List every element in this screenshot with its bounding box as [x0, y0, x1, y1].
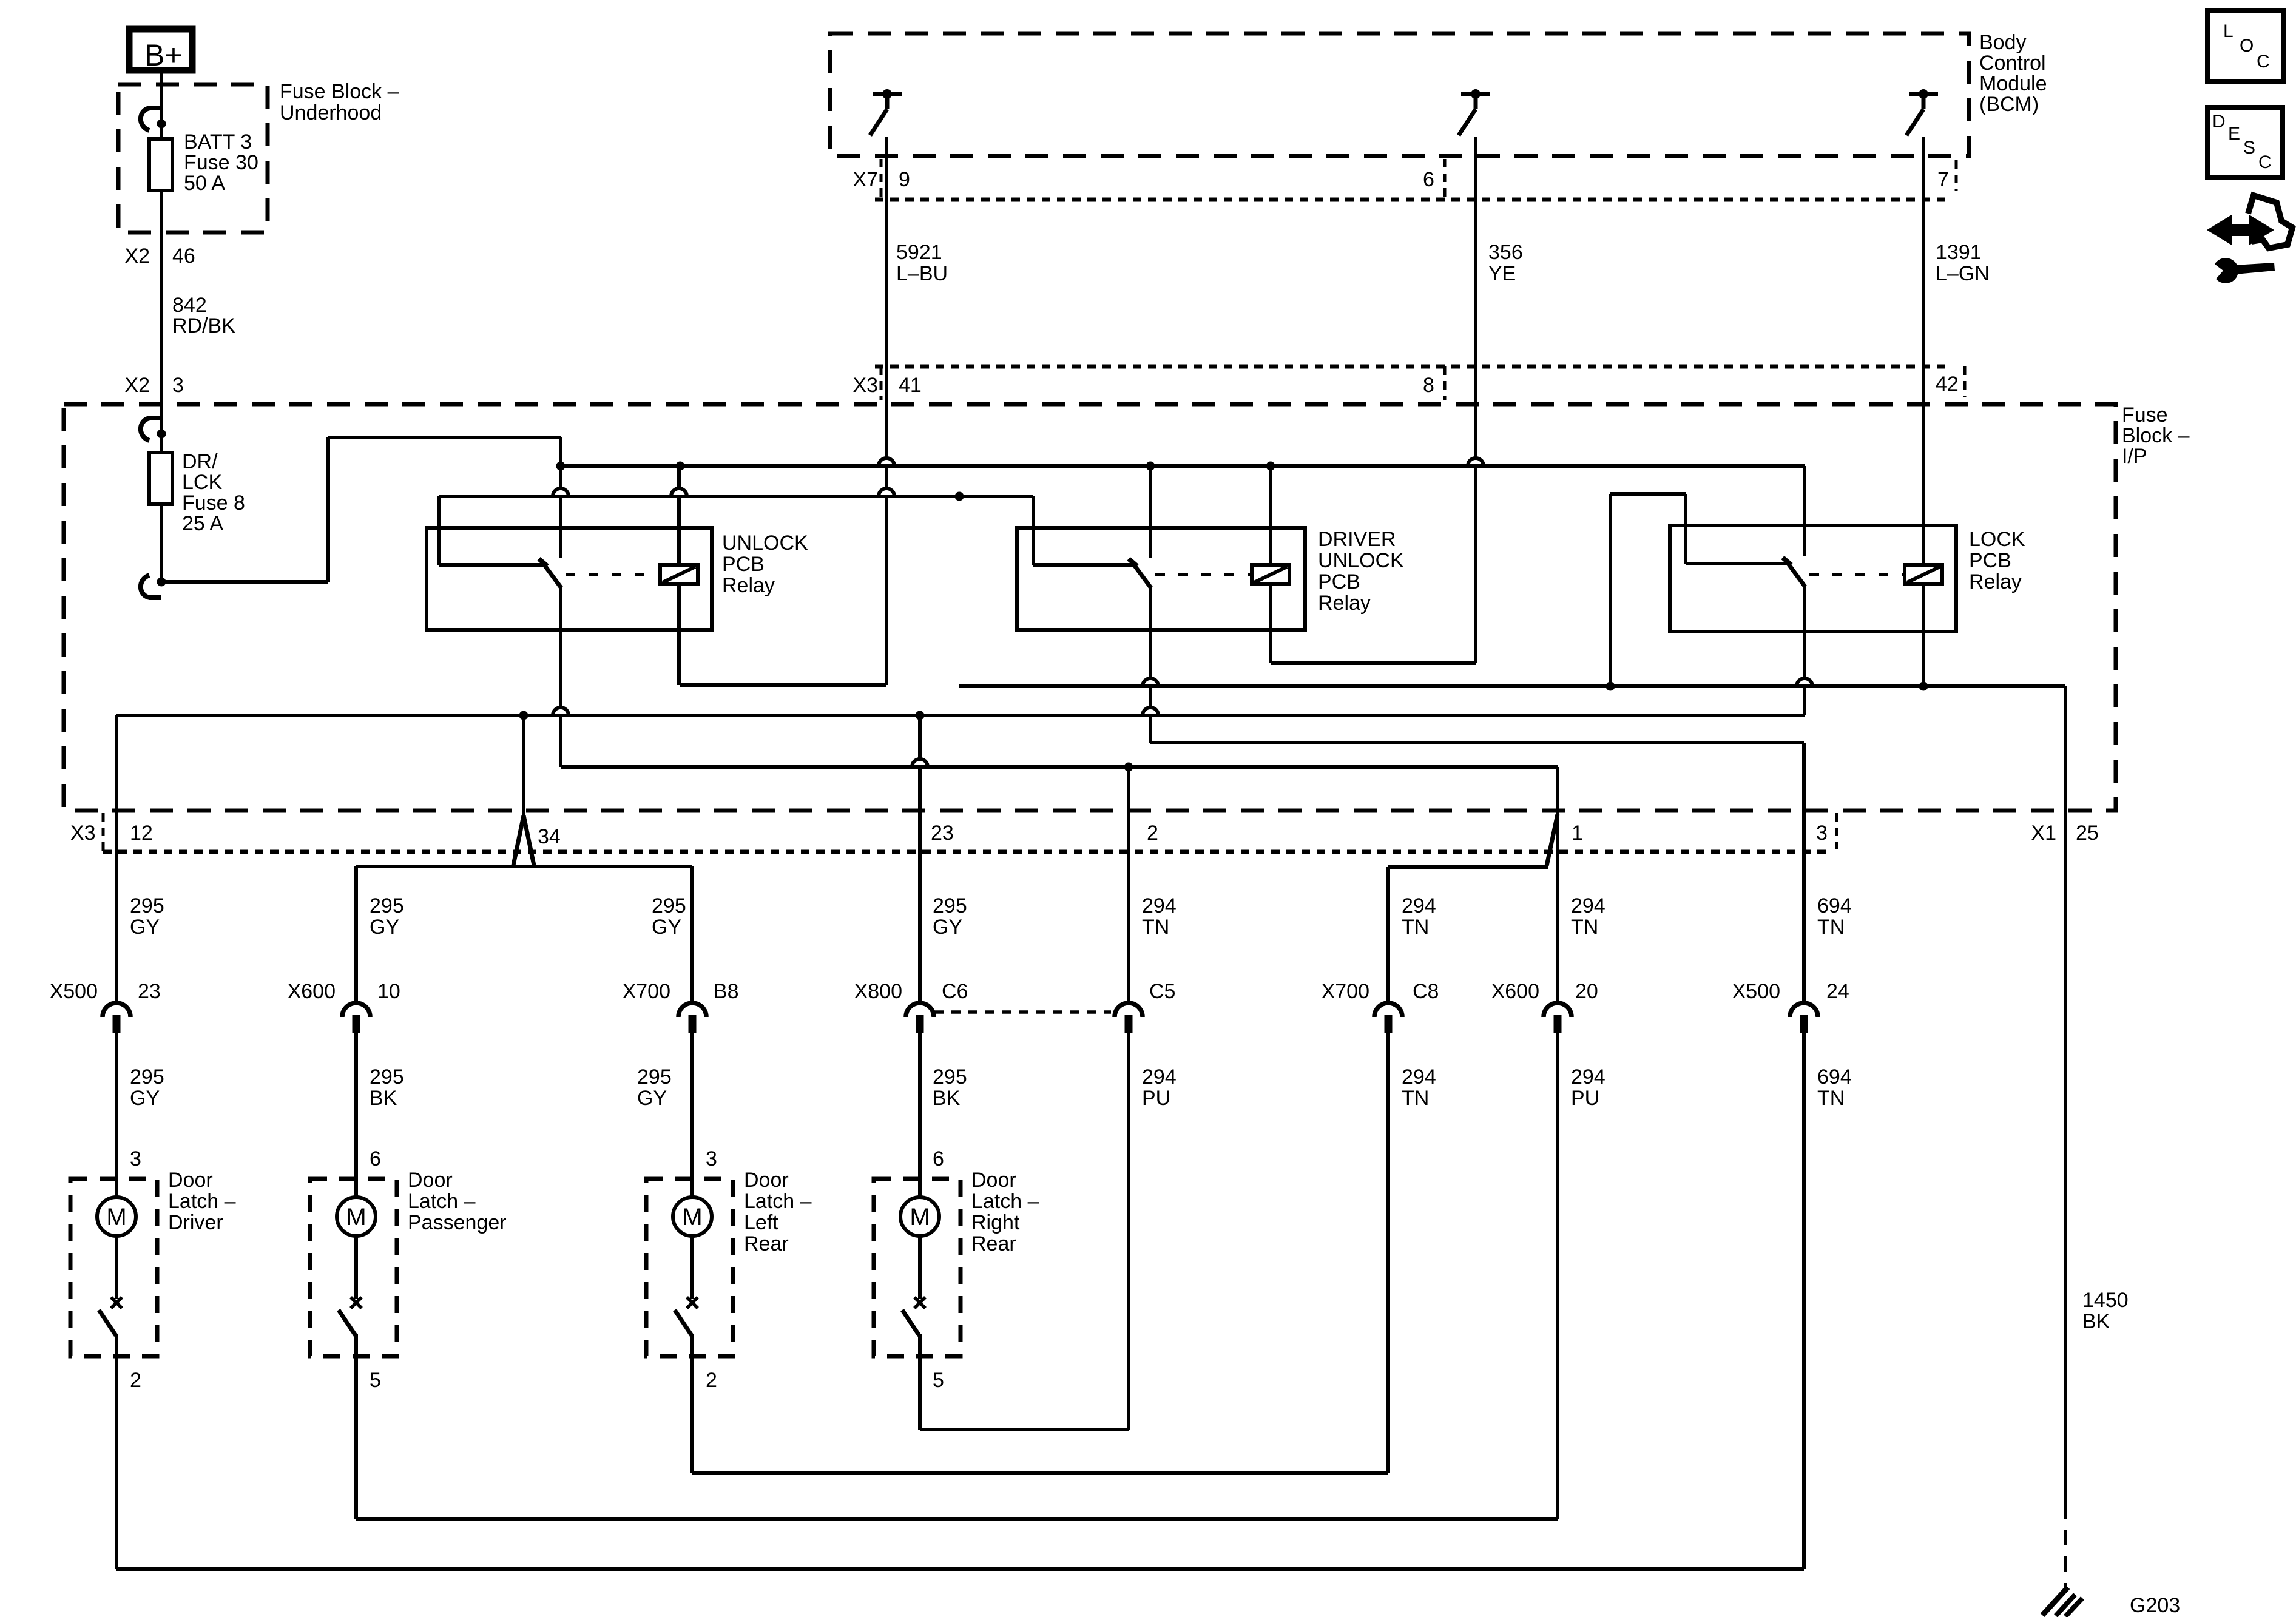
- svg-text:M: M: [346, 1204, 366, 1230]
- svg-text:294: 294: [1142, 894, 1177, 917]
- svg-text:TN: TN: [1402, 916, 1429, 939]
- svg-text:Latch –: Latch –: [408, 1190, 476, 1213]
- svg-text:TN: TN: [1142, 916, 1169, 939]
- svg-text:23: 23: [931, 822, 954, 845]
- svg-text:L–GN: L–GN: [1936, 262, 1990, 285]
- svg-text:G203: G203: [2130, 1594, 2180, 1617]
- svg-text:X700: X700: [1322, 980, 1369, 1003]
- svg-text:1: 1: [1572, 822, 1583, 845]
- svg-text:I/P: I/P: [2122, 445, 2147, 468]
- svg-text:TN: TN: [1571, 916, 1598, 939]
- svg-text:YE: YE: [1488, 262, 1516, 285]
- svg-text:DR/: DR/: [182, 450, 218, 473]
- svg-text:GY: GY: [130, 916, 160, 939]
- svg-text:GY: GY: [370, 916, 399, 939]
- svg-text:X600: X600: [288, 980, 336, 1003]
- svg-text:294: 294: [1571, 894, 1606, 917]
- svg-text:Fuse 30: Fuse 30: [184, 151, 258, 174]
- svg-text:LCK: LCK: [182, 471, 222, 494]
- svg-text:294: 294: [1142, 1065, 1177, 1089]
- svg-text:GY: GY: [130, 1087, 160, 1110]
- svg-text:X3: X3: [70, 822, 96, 845]
- svg-text:Latch –: Latch –: [744, 1190, 812, 1213]
- svg-text:5921: 5921: [896, 241, 942, 264]
- svg-text:BK: BK: [370, 1087, 397, 1110]
- svg-text:6: 6: [933, 1147, 944, 1170]
- svg-text:UNLOCK: UNLOCK: [722, 532, 808, 555]
- svg-text:X2: X2: [124, 374, 150, 397]
- svg-text:X3: X3: [853, 374, 878, 397]
- svg-text:Latch –: Latch –: [168, 1190, 236, 1213]
- svg-text:O: O: [2240, 36, 2254, 56]
- svg-text:2: 2: [1147, 822, 1158, 845]
- svg-text:Control: Control: [1979, 52, 2046, 75]
- svg-text:8: 8: [1423, 374, 1434, 397]
- svg-text:295: 295: [130, 894, 164, 917]
- svg-text:(BCM): (BCM): [1979, 93, 2039, 116]
- svg-text:3: 3: [706, 1147, 717, 1170]
- svg-text:PU: PU: [1571, 1087, 1599, 1110]
- svg-text:295: 295: [637, 1065, 672, 1089]
- svg-text:M: M: [910, 1204, 930, 1230]
- svg-text:34: 34: [538, 825, 561, 848]
- svg-text:294: 294: [1571, 1065, 1606, 1089]
- svg-text:S: S: [2243, 138, 2255, 158]
- svg-text:B8: B8: [714, 980, 739, 1003]
- svg-text:25 A: 25 A: [182, 512, 223, 535]
- svg-text:7: 7: [1937, 168, 1949, 191]
- svg-text:6: 6: [1423, 168, 1434, 191]
- svg-text:M: M: [106, 1204, 126, 1230]
- svg-text:295: 295: [933, 1065, 967, 1089]
- svg-text:295: 295: [370, 894, 404, 917]
- svg-text:842: 842: [172, 294, 207, 317]
- svg-text:295: 295: [370, 1065, 404, 1089]
- svg-text:BK: BK: [2082, 1310, 2110, 1333]
- svg-text:5: 5: [933, 1369, 944, 1392]
- svg-text:Passenger: Passenger: [408, 1211, 507, 1234]
- svg-text:1391: 1391: [1936, 241, 1982, 264]
- svg-text:Left: Left: [744, 1211, 778, 1234]
- svg-text:L–BU: L–BU: [896, 262, 948, 285]
- svg-text:TN: TN: [1817, 1087, 1845, 1110]
- svg-text:3: 3: [172, 374, 184, 397]
- svg-text:E: E: [2228, 124, 2240, 144]
- svg-text:BATT 3: BATT 3: [184, 130, 252, 154]
- svg-text:294: 294: [1402, 1065, 1436, 1089]
- svg-text:6: 6: [370, 1147, 381, 1170]
- svg-text:2: 2: [130, 1369, 141, 1392]
- svg-text:X1: X1: [2031, 822, 2056, 845]
- svg-text:46: 46: [172, 245, 195, 268]
- svg-text:X500: X500: [50, 980, 98, 1003]
- svg-text:Door: Door: [971, 1169, 1016, 1192]
- svg-text:Driver: Driver: [168, 1211, 223, 1234]
- svg-text:41: 41: [899, 374, 922, 397]
- svg-text:Latch –: Latch –: [971, 1190, 1039, 1213]
- svg-text:LOCK: LOCK: [1969, 528, 2025, 551]
- svg-text:GY: GY: [933, 916, 962, 939]
- svg-text:24: 24: [1826, 980, 1849, 1003]
- svg-text:Relay: Relay: [1969, 570, 2022, 593]
- svg-text:C8: C8: [1413, 980, 1439, 1003]
- svg-text:1450: 1450: [2082, 1289, 2129, 1312]
- svg-text:Fuse 8: Fuse 8: [182, 491, 245, 515]
- svg-text:Door: Door: [168, 1169, 213, 1192]
- svg-text:X800: X800: [854, 980, 902, 1003]
- svg-text:Relay: Relay: [722, 574, 775, 597]
- svg-text:DRIVER: DRIVER: [1318, 528, 1396, 551]
- svg-text:23: 23: [138, 980, 161, 1003]
- svg-text:Body: Body: [1979, 31, 2027, 54]
- svg-text:20: 20: [1575, 980, 1598, 1003]
- svg-text:BK: BK: [933, 1087, 961, 1110]
- svg-text:50 A: 50 A: [184, 172, 225, 195]
- svg-text:RD/BK: RD/BK: [172, 314, 235, 337]
- svg-text:694: 694: [1817, 1065, 1852, 1089]
- svg-text:X7: X7: [853, 168, 878, 191]
- svg-text:TN: TN: [1402, 1087, 1429, 1110]
- svg-text:Door: Door: [408, 1169, 453, 1192]
- svg-text:295: 295: [130, 1065, 164, 1089]
- svg-text:Block –: Block –: [2122, 424, 2190, 447]
- svg-text:25: 25: [2076, 822, 2099, 845]
- svg-text:2: 2: [706, 1369, 717, 1392]
- svg-text:B+: B+: [144, 38, 183, 72]
- svg-text:5: 5: [370, 1369, 381, 1392]
- svg-text:Fuse Block –: Fuse Block –: [280, 80, 399, 103]
- svg-text:9: 9: [899, 168, 910, 191]
- svg-text:3: 3: [130, 1147, 141, 1170]
- svg-text:C: C: [2257, 52, 2270, 72]
- svg-text:UNLOCK: UNLOCK: [1318, 549, 1404, 572]
- svg-text:PU: PU: [1142, 1087, 1170, 1110]
- svg-text:TN: TN: [1817, 916, 1845, 939]
- svg-text:694: 694: [1817, 894, 1852, 917]
- svg-text:10: 10: [377, 980, 400, 1003]
- svg-text:Underhood: Underhood: [280, 101, 382, 124]
- svg-text:356: 356: [1488, 241, 1523, 264]
- svg-text:PCB: PCB: [1969, 549, 2011, 572]
- svg-text:PCB: PCB: [1318, 570, 1360, 593]
- svg-text:X2: X2: [124, 245, 150, 268]
- svg-text:295: 295: [652, 894, 686, 917]
- svg-text:X600: X600: [1491, 980, 1539, 1003]
- svg-text:Relay: Relay: [1318, 592, 1371, 615]
- svg-text:Rear: Rear: [971, 1232, 1016, 1255]
- svg-text:Fuse: Fuse: [2122, 403, 2168, 427]
- svg-text:C5: C5: [1149, 980, 1175, 1003]
- svg-text:D: D: [2212, 112, 2226, 132]
- svg-text:12: 12: [130, 822, 153, 845]
- svg-text:GY: GY: [652, 916, 681, 939]
- svg-text:GY: GY: [637, 1087, 667, 1110]
- svg-text:295: 295: [933, 894, 967, 917]
- svg-text:M: M: [682, 1204, 702, 1230]
- svg-text:X700: X700: [623, 980, 670, 1003]
- svg-text:Rear: Rear: [744, 1232, 789, 1255]
- svg-text:C6: C6: [942, 980, 968, 1003]
- svg-text:Right: Right: [971, 1211, 1020, 1234]
- svg-text:C: C: [2258, 152, 2272, 172]
- svg-text:42: 42: [1936, 373, 1959, 396]
- svg-text:3: 3: [1816, 822, 1828, 845]
- svg-text:Door: Door: [744, 1169, 789, 1192]
- svg-text:Module: Module: [1979, 72, 2047, 95]
- svg-text:L: L: [2223, 21, 2234, 41]
- svg-text:PCB: PCB: [722, 553, 765, 576]
- svg-text:X500: X500: [1732, 980, 1780, 1003]
- svg-text:294: 294: [1402, 894, 1436, 917]
